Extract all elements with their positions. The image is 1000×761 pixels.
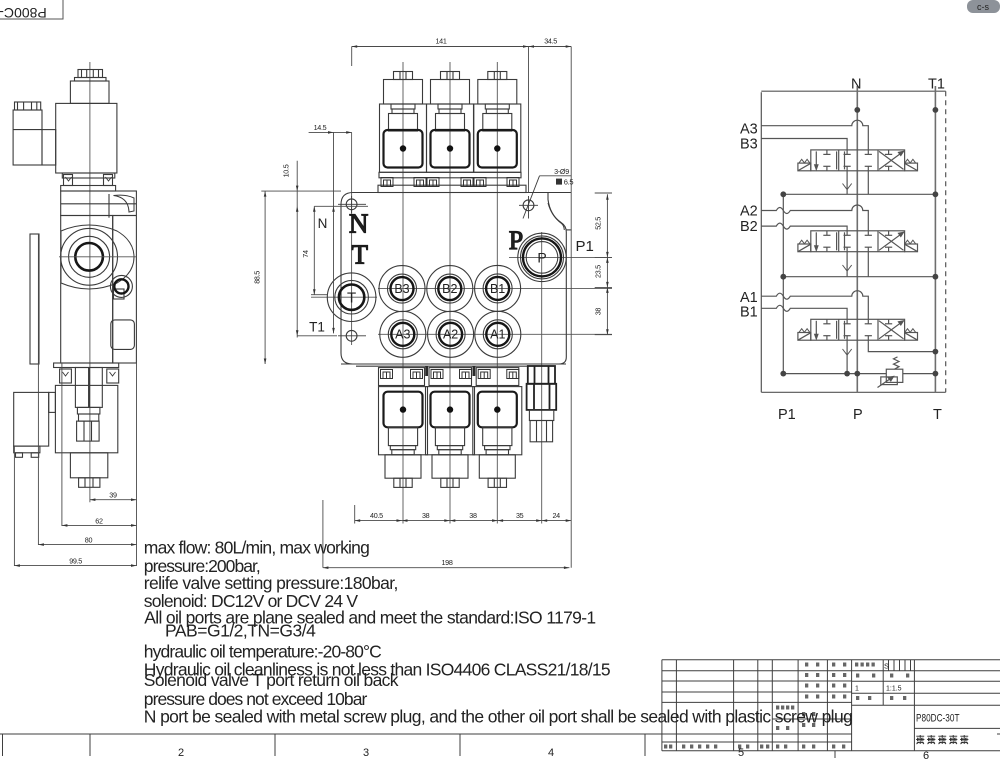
svg-text:2: 2 (178, 747, 184, 759)
svg-text:1:1.5: 1:1.5 (886, 686, 902, 693)
svg-text:PAB=G1/2,TN=G3/4: PAB=G1/2,TN=G3/4 (165, 621, 316, 641)
svg-text:A2: A2 (443, 328, 458, 342)
svg-text:A3: A3 (740, 122, 758, 138)
svg-text:14.5: 14.5 (314, 123, 327, 132)
svg-text:relife valve setting pressure:: relife valve setting pressure:180bar, (144, 573, 399, 593)
svg-text:hydraulic oil temperature:-20-: hydraulic oil temperature:-20-80°C (144, 641, 382, 661)
svg-text:T: T (933, 407, 942, 423)
svg-text:c-s: c-s (977, 2, 989, 12)
svg-text:S: S (884, 662, 889, 671)
svg-text:23.5: 23.5 (594, 265, 603, 278)
svg-text:5: 5 (738, 747, 744, 759)
svg-text:B3: B3 (394, 282, 409, 296)
svg-text:1: 1 (855, 686, 859, 693)
svg-text:3-Ø9: 3-Ø9 (554, 167, 569, 176)
svg-text:P1: P1 (576, 238, 594, 255)
svg-text:P: P (853, 407, 863, 423)
svg-text:P1: P1 (778, 407, 796, 423)
svg-text:38: 38 (469, 511, 477, 520)
svg-text:34.5: 34.5 (544, 37, 557, 46)
svg-text:Solenoid valve T port return o: Solenoid valve T port return oil back (144, 670, 399, 690)
svg-text:99.5: 99.5 (69, 557, 82, 566)
svg-text:T1: T1 (309, 320, 325, 335)
svg-text:24: 24 (552, 511, 560, 520)
svg-text:35: 35 (516, 511, 524, 520)
svg-text:A2: A2 (740, 204, 758, 220)
svg-text:141: 141 (435, 37, 446, 46)
svg-text:P: P (509, 226, 523, 255)
svg-text:80: 80 (85, 536, 93, 545)
svg-text:N: N (851, 77, 861, 93)
svg-text:B1: B1 (740, 305, 758, 321)
svg-text:38: 38 (422, 511, 430, 520)
svg-text:39: 39 (109, 491, 117, 500)
svg-text:B2: B2 (740, 219, 758, 235)
svg-text:40.5: 40.5 (370, 511, 383, 520)
svg-text:T: T (347, 290, 356, 307)
svg-text:6: 6 (923, 750, 929, 761)
svg-text:3: 3 (363, 747, 369, 759)
svg-text:10.5: 10.5 (282, 164, 291, 177)
svg-text:198: 198 (441, 558, 452, 567)
svg-text:B3: B3 (740, 137, 758, 153)
svg-text:T: T (351, 240, 368, 270)
svg-text:B1: B1 (490, 282, 505, 296)
svg-text:P800C-: P800C- (0, 5, 47, 21)
svg-text:4: 4 (548, 747, 554, 759)
svg-text:A3: A3 (395, 328, 410, 342)
svg-text:88.5: 88.5 (253, 271, 262, 284)
svg-text:52.5: 52.5 (594, 217, 603, 230)
svg-text:6.5: 6.5 (564, 177, 574, 186)
svg-text:A1: A1 (490, 328, 505, 342)
svg-text:N port be sealed with metal sc: N port be sealed with metal screw plug, … (144, 706, 853, 726)
svg-text:N: N (349, 209, 369, 239)
svg-text:74: 74 (301, 250, 310, 258)
svg-text:T1: T1 (928, 77, 945, 93)
svg-text:P80DC-30T: P80DC-30T (916, 713, 960, 725)
svg-text:max flow: 80L/min, max working: max flow: 80L/min, max working (144, 538, 370, 558)
svg-text:P: P (537, 250, 546, 266)
svg-text:38: 38 (594, 308, 603, 316)
svg-text:62: 62 (95, 516, 103, 525)
svg-text:N: N (318, 216, 328, 231)
svg-text:B2: B2 (442, 282, 457, 296)
